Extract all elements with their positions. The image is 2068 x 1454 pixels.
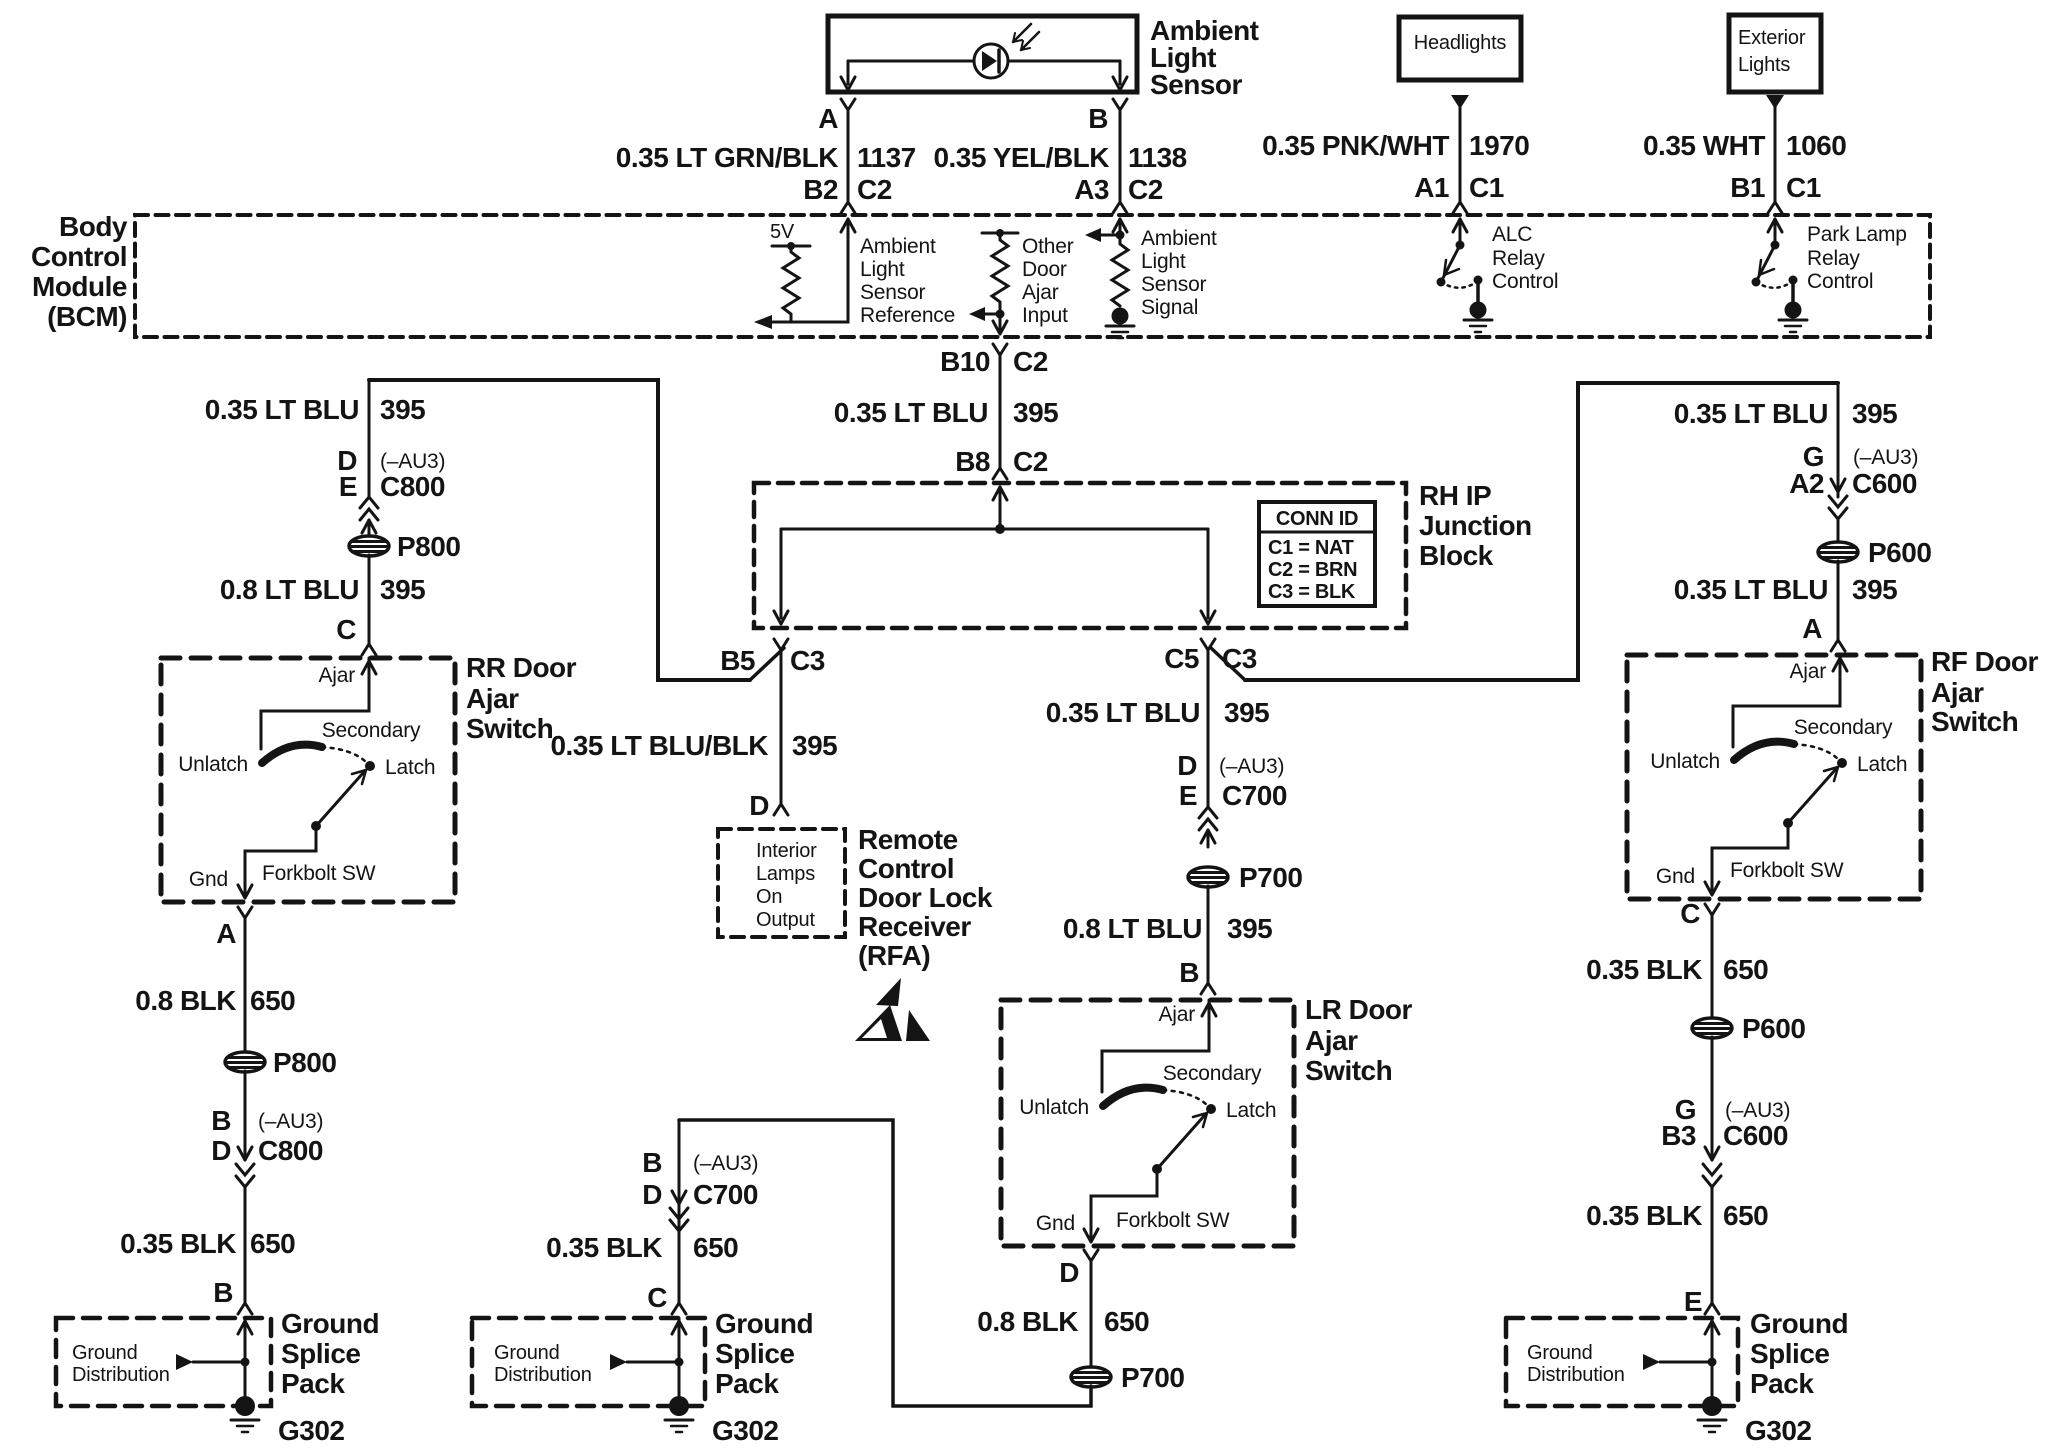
svg-text:Remote: Remote bbox=[858, 824, 958, 855]
connector into ground splice pack 3 bbox=[1705, 1303, 1719, 1314]
junction drop to B5 bbox=[774, 529, 788, 624]
svg-text:1060: 1060 bbox=[1786, 130, 1846, 161]
LR forkbolt ground wire bbox=[1036, 1169, 1230, 1242]
photodiode D1 inside ambient light sensor bbox=[848, 24, 1120, 78]
up arrow above P700 bbox=[1201, 830, 1215, 847]
svg-text:0.35 BLK: 0.35 BLK bbox=[1586, 1200, 1702, 1231]
wire 395 from B10 to B8 bbox=[999, 355, 1002, 468]
label Ground Splice Pack 2 bbox=[715, 1308, 813, 1399]
svg-text:Forkbolt SW: Forkbolt SW bbox=[1730, 859, 1844, 882]
svg-text:C2: C2 bbox=[857, 174, 892, 205]
interior lamps on output dashed box bbox=[718, 829, 845, 937]
svg-text:Ground: Ground bbox=[494, 1342, 560, 1364]
svg-text:Distribution: Distribution bbox=[72, 1364, 170, 1386]
label 0.8 BLK 650 bbox=[135, 985, 295, 1016]
label 0.35 BLK 650 bbox=[120, 1228, 295, 1259]
svg-text:On: On bbox=[756, 886, 782, 908]
svg-text:B: B bbox=[211, 1105, 231, 1136]
svg-text:0.35 PNK/WHT: 0.35 PNK/WHT bbox=[1262, 130, 1449, 161]
RF switch blade arc (secondary) bbox=[1734, 742, 1794, 760]
svg-text:Input: Input bbox=[1022, 304, 1068, 327]
svg-text:0.35 BLK: 0.35 BLK bbox=[1586, 954, 1702, 985]
svg-text:Interior: Interior bbox=[756, 840, 817, 862]
svg-text:Ambient: Ambient bbox=[860, 235, 936, 258]
connector at LR pin D bbox=[1059, 1250, 1098, 1288]
svg-text:A2: A2 bbox=[1789, 468, 1824, 499]
svg-text:C2: C2 bbox=[1128, 174, 1163, 205]
svg-text:B: B bbox=[1179, 957, 1199, 988]
label 0.8 LT BLU 395 (LR) bbox=[1063, 913, 1272, 944]
svg-text:C: C bbox=[336, 614, 356, 645]
svg-text:B10: B10 bbox=[940, 346, 990, 377]
wire 0.35 LT BLU 395 to RF switch bbox=[1837, 561, 1840, 640]
svg-text:0.8 BLK: 0.8 BLK bbox=[977, 1306, 1078, 1337]
svg-text:0.8 BLK: 0.8 BLK bbox=[135, 985, 236, 1016]
svg-text:Ajar: Ajar bbox=[1305, 1025, 1358, 1056]
svg-text:0.35 BLK: 0.35 BLK bbox=[120, 1228, 236, 1259]
svg-text:LR Door: LR Door bbox=[1305, 994, 1413, 1025]
svg-text:Gnd: Gnd bbox=[1656, 865, 1695, 888]
svg-text:E: E bbox=[1179, 780, 1197, 811]
svg-text:Secondary: Secondary bbox=[1163, 1062, 1262, 1085]
connector at RR pin A bbox=[216, 907, 252, 949]
connector B5 C3 bbox=[720, 639, 825, 680]
wire B8 into junction block bbox=[999, 487, 1002, 529]
svg-text:B3: B3 bbox=[1661, 1120, 1696, 1151]
resistor R2 other door ajar input bbox=[992, 233, 1008, 314]
svg-text:A3: A3 bbox=[1074, 174, 1109, 205]
svg-text:D: D bbox=[1177, 750, 1197, 781]
svg-text:0.35 LT BLU: 0.35 LT BLU bbox=[205, 394, 359, 425]
wire C5 branch to RF door (heavy route) bbox=[1245, 383, 1838, 680]
svg-text:0.35 LT BLU: 0.35 LT BLU bbox=[1674, 574, 1828, 605]
body control module BCM dashed box bbox=[135, 215, 1930, 337]
CONN ID table bbox=[1259, 502, 1375, 606]
svg-text:Control: Control bbox=[858, 853, 954, 884]
svg-text:Relay: Relay bbox=[1492, 247, 1545, 270]
connector B8 C2 bbox=[955, 446, 1048, 479]
svg-text:395: 395 bbox=[792, 730, 837, 761]
label 0.35 LT BLU 395 (RF mid) bbox=[1674, 574, 1897, 605]
svg-text:P600: P600 bbox=[1742, 1013, 1805, 1044]
connector at RFA pin D bbox=[774, 804, 788, 815]
ground G302 terminal 1 bbox=[231, 1396, 345, 1446]
svg-text:650: 650 bbox=[693, 1232, 738, 1263]
svg-text:Distribution: Distribution bbox=[1527, 1364, 1625, 1386]
label Body Control Module (BCM) bbox=[31, 211, 128, 332]
wire A inside BCM bbox=[762, 219, 855, 322]
ground G302 terminal 3 bbox=[1698, 1396, 1812, 1446]
connector at RF pin C bbox=[1680, 898, 1719, 929]
svg-text:C800: C800 bbox=[258, 1135, 323, 1166]
wire 1137 bbox=[847, 110, 850, 202]
center column wire to ground pack 2 bbox=[678, 1120, 681, 1303]
svg-text:RR Door: RR Door bbox=[466, 652, 577, 683]
LR switch blade arc (secondary) bbox=[1103, 1088, 1163, 1106]
svg-text:Unlatch: Unlatch bbox=[1019, 1096, 1089, 1119]
connector C5 C3 bbox=[1164, 639, 1257, 680]
svg-text:A: A bbox=[216, 918, 236, 949]
resistor R3 ambient light sensor signal bbox=[1112, 235, 1128, 306]
connector B D C700 (-AU3) center bbox=[642, 1147, 758, 1231]
connector B10 C2 bbox=[940, 344, 1048, 377]
ALC relay control switch bbox=[1437, 219, 1493, 332]
label 0.35 LT BLU 395 (center top) bbox=[834, 397, 1058, 428]
svg-text:P700: P700 bbox=[1239, 862, 1302, 893]
svg-text:E: E bbox=[339, 471, 357, 502]
label 0.35 LT BLU 395 (RF top) bbox=[1674, 398, 1897, 429]
RR switch ajar input wire bbox=[261, 658, 376, 749]
ground splice pack 2 wire bbox=[672, 1318, 686, 1406]
svg-text:Unlatch: Unlatch bbox=[1650, 750, 1720, 773]
RR door ajar switch dashed box bbox=[161, 658, 455, 902]
label Remote Control Door Lock Receiver (RFA) bbox=[858, 824, 993, 971]
pass-through grommet P600 bbox=[1818, 537, 1931, 568]
svg-text:Junction: Junction bbox=[1419, 510, 1532, 541]
svg-text:E: E bbox=[1684, 1286, 1702, 1317]
svg-text:Ground: Ground bbox=[72, 1342, 138, 1364]
svg-text:5V: 5V bbox=[770, 221, 795, 243]
label 0.35 YEL/BLK 1138 bbox=[933, 142, 1186, 173]
svg-text:C: C bbox=[647, 1282, 667, 1313]
exterior lights output triangle bbox=[1766, 95, 1784, 109]
connector half at sensor pin B bbox=[1113, 99, 1127, 110]
svg-text:RH IP: RH IP bbox=[1419, 480, 1491, 511]
svg-text:1138: 1138 bbox=[1128, 142, 1187, 173]
wire sensor pin B drop bbox=[1113, 61, 1127, 90]
svg-text:B: B bbox=[642, 1147, 662, 1178]
svg-text:Light: Light bbox=[1141, 250, 1186, 273]
ambient light sensor box bbox=[828, 16, 1137, 92]
5V supply tick bbox=[770, 221, 810, 250]
junction bus node bbox=[995, 524, 1005, 534]
svg-text:ALC: ALC bbox=[1492, 223, 1532, 246]
label 0.35 BLK 650 (center) bbox=[546, 1232, 738, 1263]
wire 0.35 BLK 650 (RF upper) bbox=[1711, 915, 1714, 1019]
svg-text:395: 395 bbox=[1013, 397, 1058, 428]
svg-text:C1: C1 bbox=[1786, 172, 1821, 203]
svg-text:Control: Control bbox=[1492, 270, 1558, 293]
svg-text:(–AU3): (–AU3) bbox=[258, 1110, 323, 1133]
svg-text:Pack: Pack bbox=[715, 1368, 779, 1399]
label 0.35 PNK/WHT 1970 bbox=[1262, 130, 1529, 161]
svg-text:C: C bbox=[1680, 898, 1700, 929]
svg-text:Relay: Relay bbox=[1807, 247, 1860, 270]
label LR Door Ajar Switch bbox=[1305, 994, 1413, 1086]
svg-text:650: 650 bbox=[1104, 1306, 1149, 1337]
label 0.35 BLK 650 (RF lower) bbox=[1586, 1200, 1768, 1231]
svg-text:C2: C2 bbox=[1013, 446, 1048, 477]
svg-text:C2: C2 bbox=[1013, 346, 1048, 377]
svg-text:Sensor: Sensor bbox=[1150, 69, 1243, 100]
label 0.35 LT BLU 395 (LR top) bbox=[1046, 697, 1269, 728]
pass-through grommet P600 lower bbox=[1692, 1013, 1805, 1044]
label Ambient Light Sensor bbox=[1150, 15, 1259, 100]
svg-text:(–AU3): (–AU3) bbox=[380, 450, 445, 473]
svg-text:B2: B2 bbox=[803, 174, 838, 205]
connector at RF door ajar pin A bbox=[1831, 640, 1845, 651]
LR switch ajar input wire bbox=[1102, 1000, 1216, 1092]
pass-through grommet P700 lower bbox=[1071, 1362, 1184, 1393]
svg-text:C3 = BLK: C3 = BLK bbox=[1268, 581, 1356, 603]
svg-text:B1: B1 bbox=[1730, 172, 1765, 203]
svg-text:(–AU3): (–AU3) bbox=[693, 1152, 758, 1175]
svg-text:D: D bbox=[749, 790, 769, 821]
svg-text:0.35 LT BLU: 0.35 LT BLU bbox=[834, 397, 988, 428]
svg-text:0.35 WHT: 0.35 WHT bbox=[1643, 130, 1765, 161]
label 0.35 BLK 650 (RF upper) bbox=[1586, 954, 1768, 985]
ESD sensitivity symbol bbox=[855, 978, 930, 1041]
RF door ajar switch dashed box bbox=[1627, 655, 1921, 899]
off-page arrow ambient light sensor reference bbox=[754, 315, 772, 329]
connector B2 C2 bbox=[803, 174, 892, 213]
RF switch ajar input wire bbox=[1733, 655, 1847, 747]
ground splice pack 1 dashed box bbox=[56, 1318, 271, 1406]
svg-text:Park Lamp: Park Lamp bbox=[1807, 223, 1907, 246]
label Ambient Light Sensor Signal bbox=[1141, 227, 1217, 319]
svg-text:Exterior: Exterior bbox=[1738, 27, 1806, 49]
svg-text:Reference: Reference bbox=[860, 304, 955, 327]
svg-text:Gnd: Gnd bbox=[189, 868, 228, 891]
svg-text:0.35 LT GRN/BLK: 0.35 LT GRN/BLK bbox=[616, 142, 839, 173]
svg-text:A1: A1 bbox=[1414, 172, 1449, 203]
label 0.8 BLK 650 (LR) bbox=[977, 1306, 1149, 1337]
svg-text:650: 650 bbox=[250, 1228, 295, 1259]
svg-text:Ajar: Ajar bbox=[1158, 1003, 1195, 1026]
wire to B10 with down arrow bbox=[993, 314, 1007, 334]
wire 0.8 LT BLU 395 (LR) bbox=[1207, 886, 1210, 983]
ground G302 terminal 2 bbox=[665, 1396, 779, 1446]
svg-text:Switch: Switch bbox=[466, 713, 553, 744]
svg-text:395: 395 bbox=[1852, 574, 1897, 605]
connector D E C700 (-AU3) bbox=[1177, 750, 1287, 830]
svg-text:Door: Door bbox=[1022, 258, 1067, 281]
svg-text:Ajar: Ajar bbox=[1022, 281, 1059, 304]
svg-text:Control: Control bbox=[1807, 270, 1873, 293]
ground distribution branch arrow 3 bbox=[1643, 1354, 1717, 1370]
svg-text:C2 = BRN: C2 = BRN bbox=[1268, 559, 1357, 581]
RR switch blade arc (secondary) bbox=[262, 745, 322, 763]
pass-through grommet P800 lower bbox=[225, 1047, 336, 1078]
wire LR top column from C5 bbox=[1207, 650, 1210, 808]
svg-text:0.8 LT BLU: 0.8 LT BLU bbox=[1063, 913, 1202, 944]
connector into ground splice pack 1 bbox=[238, 1303, 252, 1314]
label Interior Lamps On Output bbox=[756, 840, 817, 931]
svg-text:C800: C800 bbox=[380, 471, 445, 502]
RR forkbolt ground wire bbox=[189, 826, 376, 898]
svg-text:Secondary: Secondary bbox=[1794, 716, 1893, 739]
svg-text:P800: P800 bbox=[273, 1047, 336, 1078]
svg-text:Latch: Latch bbox=[1857, 753, 1907, 776]
svg-text:1137: 1137 bbox=[857, 142, 916, 173]
svg-text:1970: 1970 bbox=[1469, 130, 1529, 161]
wire B inside BCM bbox=[1113, 219, 1127, 235]
label Ground Distribution 1 bbox=[72, 1342, 170, 1386]
RF latch contact bbox=[1837, 758, 1847, 768]
svg-text:Splice: Splice bbox=[281, 1338, 360, 1369]
svg-text:395: 395 bbox=[1227, 913, 1272, 944]
svg-text:Body: Body bbox=[59, 211, 128, 242]
svg-text:Ground: Ground bbox=[1750, 1308, 1848, 1339]
svg-text:Switch: Switch bbox=[1931, 706, 2018, 737]
svg-text:D: D bbox=[642, 1179, 662, 1210]
up arrow above P800 bbox=[362, 520, 376, 537]
svg-text:Control: Control bbox=[31, 241, 127, 272]
connector D E C800 (-AU3) bbox=[337, 445, 445, 520]
connector into ground splice pack 2 bbox=[672, 1303, 686, 1314]
svg-text:Output: Output bbox=[756, 909, 815, 931]
wire B5 drop to interior lamps output bbox=[780, 650, 783, 804]
wire LR ground route to center splice bbox=[679, 1120, 1091, 1406]
svg-text:Ground: Ground bbox=[281, 1308, 379, 1339]
ground splice pack 3 wire bbox=[1705, 1318, 1719, 1406]
ground distribution branch arrow 2 bbox=[610, 1354, 684, 1370]
connector half at sensor pin A bbox=[841, 99, 855, 110]
label Ambient Light Sensor Reference bbox=[860, 235, 955, 327]
svg-text:Ajar: Ajar bbox=[1789, 660, 1826, 683]
svg-text:Gnd: Gnd bbox=[1036, 1212, 1075, 1235]
exterior lights box bbox=[1729, 15, 1821, 92]
svg-text:Forkbolt SW: Forkbolt SW bbox=[262, 862, 376, 885]
svg-text:C600: C600 bbox=[1852, 468, 1917, 499]
svg-text:Pack: Pack bbox=[1750, 1368, 1814, 1399]
LR door ajar switch dashed box bbox=[1001, 1000, 1294, 1246]
svg-text:0.35 LT BLU: 0.35 LT BLU bbox=[1046, 697, 1200, 728]
label RF Door Ajar Switch bbox=[1931, 646, 2039, 737]
svg-text:B5: B5 bbox=[720, 645, 755, 676]
connector at LR door ajar pin B bbox=[1201, 983, 1215, 994]
ground splice pack 1 wire bbox=[238, 1318, 252, 1406]
svg-text:C1: C1 bbox=[1469, 172, 1504, 203]
svg-text:(–AU3): (–AU3) bbox=[1219, 755, 1284, 778]
label Ground Distribution 3 bbox=[1527, 1342, 1625, 1386]
headlights box bbox=[1399, 17, 1521, 80]
svg-text:Latch: Latch bbox=[385, 756, 435, 779]
svg-text:Ajar: Ajar bbox=[466, 683, 519, 714]
up arrow inside junction block bbox=[993, 487, 1007, 500]
wire B5 branch to RR door (heavy route) bbox=[369, 380, 750, 680]
wire 1138 bbox=[1119, 110, 1122, 202]
RR switch labels bbox=[178, 719, 435, 779]
wire RF top column bbox=[1837, 383, 1840, 497]
label Park Lamp Relay Control bbox=[1807, 223, 1907, 293]
off-page arrow other door ajar input bbox=[969, 307, 1000, 321]
RF dotted travel to latch bbox=[1794, 744, 1838, 759]
svg-text:Door Lock: Door Lock bbox=[858, 882, 993, 913]
svg-text:0.35 BLK: 0.35 BLK bbox=[546, 1232, 662, 1263]
ground distribution branch arrow 1 bbox=[176, 1354, 250, 1370]
svg-text:Receiver: Receiver bbox=[858, 911, 971, 942]
svg-text:Unlatch: Unlatch bbox=[178, 753, 248, 776]
svg-text:Block: Block bbox=[1419, 540, 1494, 571]
LR latch contact bbox=[1206, 1104, 1216, 1114]
svg-text:Ajar: Ajar bbox=[318, 664, 355, 687]
wire to P600 bbox=[1837, 518, 1840, 543]
svg-text:C3: C3 bbox=[790, 645, 825, 676]
svg-text:Lamps: Lamps bbox=[756, 863, 815, 885]
wire to C800 bbox=[244, 1071, 247, 1160]
label ALC Relay Control bbox=[1492, 223, 1558, 293]
svg-text:Ground: Ground bbox=[1527, 1342, 1593, 1364]
svg-text:650: 650 bbox=[1723, 1200, 1768, 1231]
svg-text:A: A bbox=[818, 103, 838, 134]
RF forkbolt arm arrow bbox=[1783, 767, 1838, 828]
svg-text:G302: G302 bbox=[278, 1415, 345, 1446]
other door ajar input pull-up tick bbox=[982, 229, 1018, 237]
svg-text:Switch: Switch bbox=[1305, 1055, 1392, 1086]
svg-text:G302: G302 bbox=[712, 1415, 779, 1446]
connector G B3 C600 (-AU3) bbox=[1661, 1094, 1790, 1187]
label RH IP Junction Block bbox=[1419, 480, 1532, 571]
svg-text:A: A bbox=[1802, 613, 1822, 644]
connector A1 C1 bbox=[1414, 172, 1504, 213]
wire 0.8 BLK 650 bbox=[244, 918, 247, 1053]
svg-text:D: D bbox=[1059, 1257, 1079, 1288]
junction drop to C5 bbox=[1201, 529, 1215, 624]
svg-text:Pack: Pack bbox=[281, 1368, 345, 1399]
RF switch labels bbox=[1650, 716, 1907, 776]
svg-text:(BCM): (BCM) bbox=[47, 301, 127, 332]
wire to C600 lower bbox=[1711, 1037, 1714, 1160]
svg-text:Splice: Splice bbox=[715, 1338, 794, 1369]
label Other Door Ajar Input bbox=[1022, 235, 1074, 327]
svg-text:CONN ID: CONN ID bbox=[1276, 508, 1358, 530]
connector B1 C1 bbox=[1730, 172, 1821, 213]
label 0.35 LT BLU/BLK 395 bbox=[550, 730, 837, 761]
ground splice pack 3 dashed box bbox=[1506, 1318, 1738, 1406]
svg-text:D: D bbox=[211, 1135, 231, 1166]
label RR Door Ajar Switch bbox=[466, 652, 577, 744]
wire 0.35 BLK 650 (RF lower) bbox=[1711, 1186, 1714, 1303]
svg-text:C5: C5 bbox=[1164, 643, 1199, 674]
svg-text:Headlights: Headlights bbox=[1414, 32, 1507, 54]
svg-text:C700: C700 bbox=[693, 1179, 758, 1210]
svg-text:RF Door: RF Door bbox=[1931, 646, 2039, 677]
svg-text:Ground: Ground bbox=[715, 1308, 813, 1339]
park lamp relay control switch bbox=[1752, 219, 1808, 332]
svg-text:Distribution: Distribution bbox=[494, 1364, 592, 1386]
label 0.35 WHT 1060 bbox=[1643, 130, 1846, 161]
RR latch contact bbox=[365, 761, 375, 771]
ground symbol sensor signal bbox=[1106, 326, 1134, 338]
svg-text:Signal: Signal bbox=[1141, 296, 1198, 319]
label 0.35 LT GRN/BLK 1137 bbox=[616, 142, 916, 173]
pass-through grommet P700 bbox=[1188, 862, 1302, 893]
off-page arrow ambient light sensor signal bbox=[1085, 228, 1125, 242]
svg-text:B8: B8 bbox=[955, 446, 990, 477]
wire 0.35 BLK 650 bbox=[244, 1186, 247, 1303]
LR forkbolt arm arrow bbox=[1152, 1113, 1207, 1174]
label Ground Splice Pack 3 bbox=[1750, 1308, 1848, 1399]
RH IP junction block dashed box bbox=[754, 483, 1406, 628]
svg-text:Sensor: Sensor bbox=[1141, 273, 1207, 296]
connector G A2 C600 (-AU3) bbox=[1789, 441, 1918, 519]
svg-text:Latch: Latch bbox=[1226, 1099, 1276, 1122]
svg-text:(RFA): (RFA) bbox=[858, 940, 930, 971]
connector A3 C2 bbox=[1074, 174, 1163, 213]
svg-text:395: 395 bbox=[380, 394, 425, 425]
label Ground Splice Pack 1 bbox=[281, 1308, 379, 1399]
svg-text:(–AU3): (–AU3) bbox=[1725, 1099, 1790, 1122]
wire 0.8 BLK 650 (LR) bbox=[1090, 1261, 1093, 1367]
svg-text:395: 395 bbox=[1224, 697, 1269, 728]
wire 1970 bbox=[1459, 107, 1462, 202]
svg-text:0.8 LT BLU: 0.8 LT BLU bbox=[220, 574, 359, 605]
RR dotted travel to latch bbox=[322, 747, 366, 762]
label 0.8 LT BLU 395 bbox=[220, 574, 425, 605]
RF forkbolt ground wire bbox=[1656, 823, 1844, 895]
svg-text:Secondary: Secondary bbox=[322, 719, 421, 742]
